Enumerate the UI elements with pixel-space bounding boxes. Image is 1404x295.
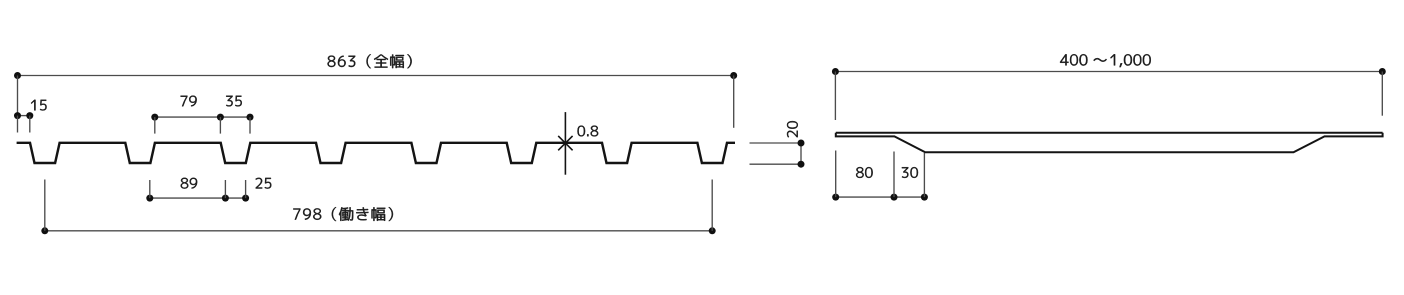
label 798 (hataraki-haba working width)	[293, 207, 393, 221]
label 80	[856, 167, 873, 178]
label 30	[902, 167, 918, 178]
flat sheet bottom line with end steps	[836, 133, 1383, 153]
label 0.8	[578, 126, 599, 137]
label 400~1,000	[1060, 54, 1151, 67]
label 25	[256, 178, 272, 189]
flat sheet top surface line	[836, 132, 1383, 134]
label 20 (rotated)	[787, 121, 798, 137]
dimension 20 (profile depth)	[750, 140, 805, 168]
label 89	[181, 178, 198, 189]
label 35	[226, 96, 242, 107]
deck profile section (trapezoidal ribbed sheet)	[17, 143, 735, 163]
label 79	[181, 96, 197, 107]
label 863 (zen-haba overall width)	[328, 54, 412, 68]
dimension 79 and 35 (rib top spacing)	[151, 114, 253, 134]
label 15	[31, 100, 47, 111]
sheet thickness mark (vertical line with X) t=0.8	[558, 112, 572, 175]
dimension 89 and 25 (rib bottom spacing)	[146, 180, 249, 202]
dimension 80 and 30 (end bend lengths)	[832, 151, 928, 201]
dimension line 798 (hataraki-haba, working width)	[41, 180, 715, 235]
dimension line 863 (zenpuku, overall width)	[14, 72, 737, 128]
dimension 15 (left edge offset)	[14, 112, 33, 132]
dimension line 400-1000 (sheet width range)	[832, 68, 1386, 120]
